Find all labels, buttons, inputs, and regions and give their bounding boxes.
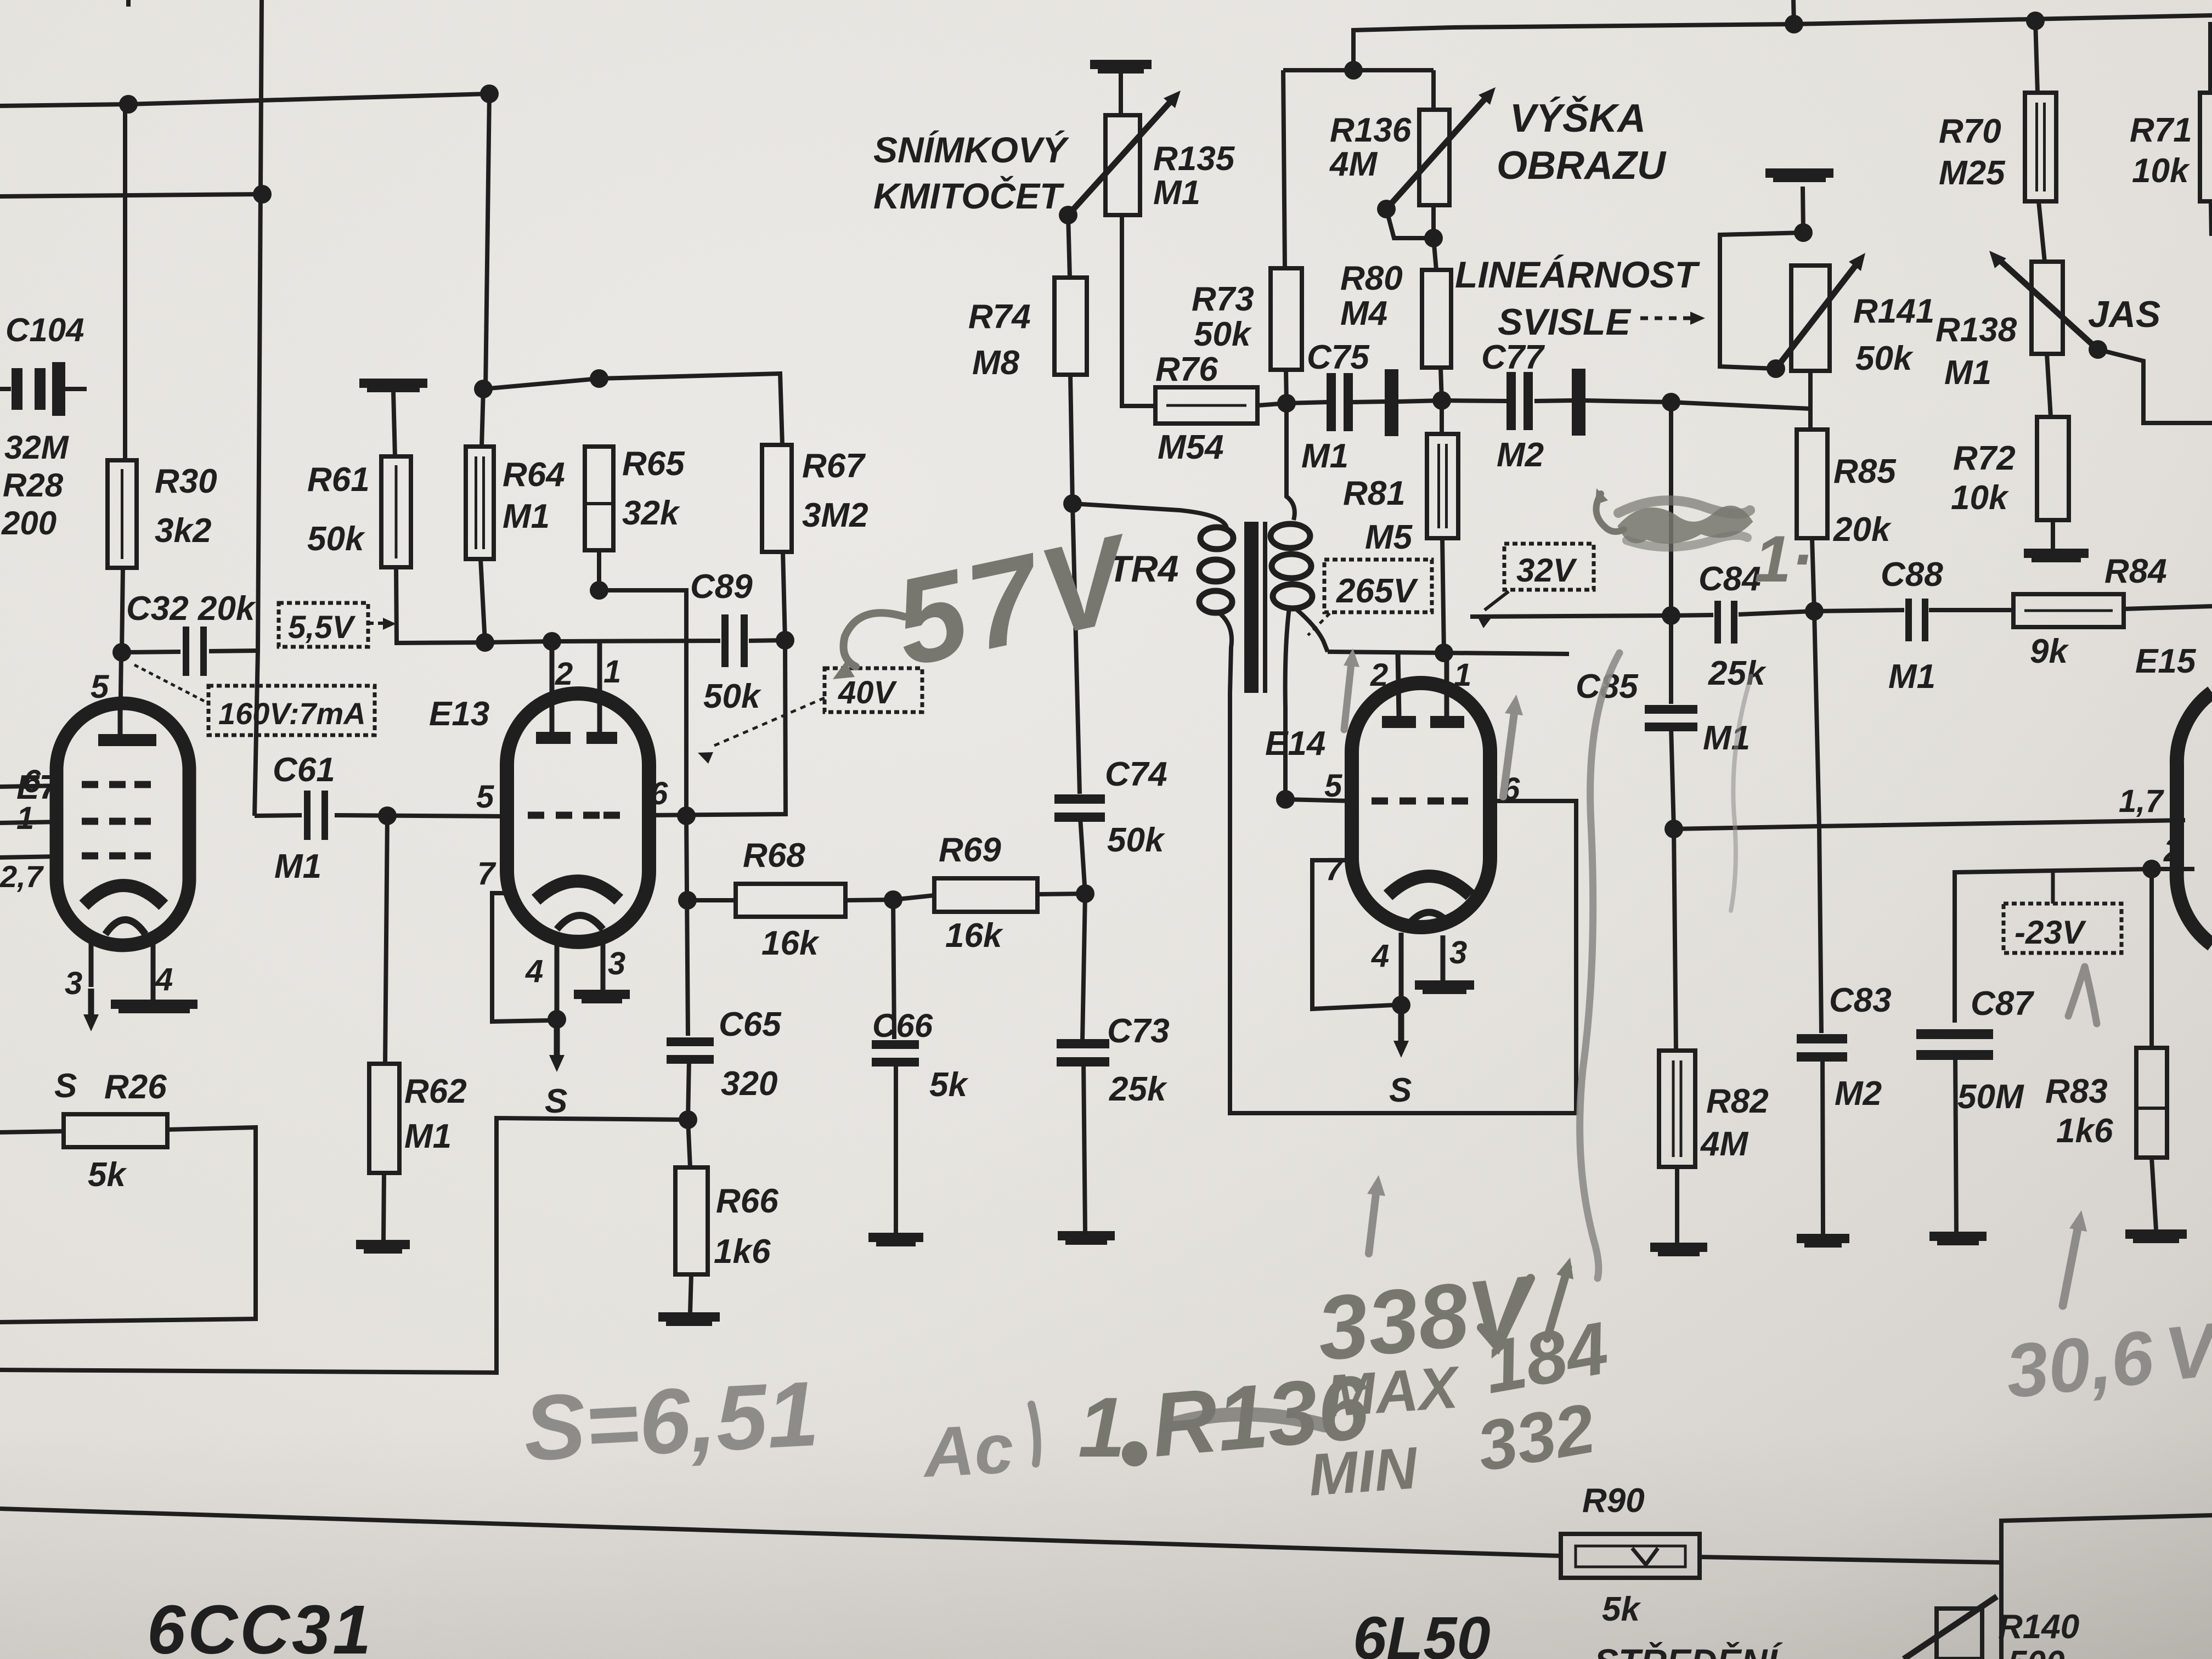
wire R65 bottom [599, 550, 686, 816]
svg-text:6: 6 [650, 776, 668, 811]
svg-text:R62: R62 [404, 1073, 467, 1110]
wire R136 wiper link [1386, 209, 1434, 238]
svg-text:5k: 5k [88, 1156, 127, 1194]
resistor R61 [393, 392, 395, 456]
pencil curl near 32V [1596, 494, 1624, 532]
svg-text:7: 7 [477, 856, 496, 891]
pointer to 160V box [134, 665, 208, 703]
svg-text:JAS: JAS [2088, 294, 2160, 335]
junction top x3710 [2026, 12, 2045, 30]
pencil faint curve near C85 [1731, 676, 1751, 911]
wire E14 pin6 loop [1230, 692, 1576, 1113]
arrow from 5,5V box [368, 622, 387, 625]
transformer TR4 core [1244, 522, 1259, 693]
resistor R74 [1068, 215, 1070, 278]
svg-text:M54: M54 [1158, 428, 1224, 466]
pencil arrow above 30,6V [2063, 1221, 2079, 1306]
junction C65 bottom [679, 1110, 697, 1129]
wire JAS wiper out [2098, 349, 2212, 423]
E13 pin1 lead [597, 641, 602, 732]
svg-text:1: 1 [603, 654, 621, 690]
wire R141 top [1803, 187, 1803, 233]
svg-text:M1: M1 [503, 498, 550, 535]
tube E7 envelope [57, 703, 189, 945]
svg-text:R73: R73 [1192, 280, 1254, 318]
pointer 265V [1308, 613, 1330, 635]
E14 cathode arc [1388, 876, 1470, 895]
svg-text:32M: 32M [4, 429, 70, 466]
svg-text:160V:7mA: 160V:7mA [218, 696, 366, 731]
capacitor C65 [686, 816, 688, 1036]
pencil up arrow above 338V [1369, 1185, 1377, 1254]
wire R73 bottom [1286, 370, 1286, 403]
svg-text:6CC31: 6CC31 [147, 1591, 373, 1659]
resistor R26 [0, 1131, 64, 1132]
junction R138 wiper [2089, 340, 2107, 359]
wire R61 bottom to V2 [396, 567, 485, 643]
svg-text:2: 2 [2163, 833, 2181, 868]
wire R71 bottom [2211, 201, 2211, 236]
E14 pin7 bracket [1312, 860, 1393, 1009]
voltage box 32V [1504, 544, 1594, 590]
junction grid row x1251 [677, 806, 696, 825]
svg-text:C73: C73 [1107, 1012, 1170, 1050]
ground E13 pin3 [574, 990, 630, 999]
wire after R90 [1700, 1557, 2001, 1562]
junction C77row riser [1662, 393, 1680, 411]
E7 heater arc [105, 920, 145, 935]
resistor R66 [688, 1120, 690, 1167]
junction H1-V2 [480, 84, 499, 103]
svg-text:32V: 32V [1516, 552, 1578, 589]
svg-text:R72: R72 [1953, 439, 2016, 477]
junction R141 top [1794, 223, 1813, 242]
svg-text:500: 500 [2008, 1644, 2064, 1659]
pencil long swoosh [1580, 653, 1620, 1278]
resistor R30 [123, 104, 127, 460]
svg-text:3M2: 3M2 [802, 496, 868, 534]
E7 pin3 lead [89, 939, 94, 987]
junction C61-R62 [378, 806, 397, 825]
svg-text:M1: M1 [1153, 174, 1200, 212]
wire y1170 row [485, 641, 720, 642]
svg-text:R71: R71 [2130, 111, 2192, 149]
svg-text:R26: R26 [104, 1068, 167, 1106]
svg-text:C83: C83 [1829, 981, 1892, 1019]
E7 pin4 lead [151, 941, 156, 1000]
capacitor C32 [183, 627, 189, 676]
wire E15 pin2 row [2152, 867, 2194, 871]
svg-text:R66: R66 [716, 1182, 778, 1220]
wire E14 pin5 to junction [1285, 799, 1352, 801]
E14 anode bars [1382, 716, 1416, 728]
pencil up arrow right of 338V [1547, 1267, 1568, 1339]
capacitor C77 [1442, 400, 1507, 401]
resistor R71 partial [2200, 93, 2212, 201]
svg-text:VÝŠKA: VÝŠKA [1510, 96, 1646, 140]
wire row y1120 [1470, 615, 1713, 617]
wire R67 bottom [783, 552, 785, 640]
svg-text:50k: 50k [1107, 821, 1166, 859]
svg-text:40V: 40V [838, 675, 898, 710]
svg-text:50k: 50k [703, 678, 762, 715]
svg-text:R140: R140 [1998, 1608, 2079, 1646]
resistor R135 variable [1119, 74, 1123, 115]
wire stub top edge [126, 0, 131, 7]
wire R70 to R138 [2039, 201, 2045, 262]
svg-text:3: 3 [1449, 935, 1467, 970]
capacitor C61 [304, 791, 311, 840]
E13 pin4 lead [555, 935, 560, 1019]
svg-text:2: 2 [1370, 657, 1388, 693]
capacitor C89 [721, 614, 729, 667]
wire R74 bottom [1070, 375, 1073, 504]
resistor R70 [2035, 21, 2038, 93]
junction C89 right [776, 631, 794, 650]
pencil arrow near C87 [2068, 967, 2085, 1016]
svg-text:5k: 5k [1602, 1590, 1641, 1628]
E13 pin7 bracket [492, 893, 549, 1022]
wire pin2 bracket to C87 [1955, 869, 2152, 1023]
svg-text:6: 6 [23, 764, 41, 799]
svg-text:Ac: Ac [920, 1409, 1015, 1493]
svg-text:1: 1 [1078, 1380, 1125, 1475]
svg-text:1·: 1· [1754, 522, 1813, 596]
svg-text:M1: M1 [1301, 437, 1348, 475]
junction R136 wiper [1377, 200, 1396, 218]
E14 heater arc [1407, 912, 1451, 926]
E7 grid row 6 [82, 781, 98, 788]
svg-text:M8: M8 [972, 344, 1020, 382]
junction R85 bottom [1805, 602, 1824, 620]
svg-text:R84: R84 [2104, 552, 2167, 590]
resistor R62 [385, 816, 387, 1064]
junction V2 bottom [476, 633, 494, 652]
junction H128 riser [1344, 61, 1363, 80]
pencil up arrow left of C85 [1503, 705, 1515, 797]
resistor R69 [893, 895, 934, 900]
ground E14 pin3 [1415, 980, 1474, 990]
wire R73 column [1283, 70, 1285, 268]
junction R74-TR4 [1063, 494, 1082, 513]
stub to -23V box [2051, 871, 2055, 904]
ground R62 [383, 1173, 384, 1240]
junction R136-R80 [1424, 229, 1443, 247]
wire bottom long [0, 1509, 1561, 1556]
svg-text:C65: C65 [719, 1006, 782, 1043]
svg-text:20k: 20k [1833, 511, 1892, 549]
wire R136 bottom [1431, 205, 1436, 238]
svg-text:R70: R70 [1939, 112, 2001, 150]
ground E7 pin4 [111, 1000, 198, 1009]
stage box 6L50 [2001, 1515, 2212, 1659]
svg-text:2: 2 [555, 656, 573, 692]
svg-text:265V: 265V [1336, 572, 1418, 610]
svg-text:E13: E13 [429, 695, 489, 733]
svg-text:C89: C89 [690, 568, 753, 606]
resistor R68 [687, 898, 736, 902]
E7 grid row 2,7 [82, 853, 98, 860]
wire horizontal H2 [0, 194, 262, 196]
junction R80-C75row [1432, 391, 1451, 410]
wire long bottom-left [0, 1118, 688, 1373]
svg-text:4: 4 [155, 962, 173, 997]
ground R83 [2152, 1158, 2156, 1229]
svg-text:3: 3 [608, 946, 625, 981]
svg-text:50k: 50k [1855, 340, 1914, 377]
E14 pin4 lead [1399, 933, 1404, 1005]
wire C89 junction down to E13 pin6 [649, 640, 786, 815]
svg-text:C84: C84 [1699, 560, 1761, 598]
E13 pin3 lead [601, 939, 606, 990]
ground above R135 [1090, 60, 1152, 69]
svg-text:4M: 4M [1329, 145, 1378, 183]
voltage box 5,5V [279, 603, 368, 647]
ground C66 [868, 1233, 923, 1242]
wire TR4 secondary bottom to grid [1285, 608, 1289, 799]
svg-text:50k: 50k [307, 520, 366, 558]
ground R82 [1675, 1167, 1679, 1243]
TR4 primary winding [1073, 504, 1227, 528]
ground C73 [1058, 1231, 1115, 1240]
svg-text:R30: R30 [155, 462, 217, 500]
capacitor C87 [1916, 1029, 1993, 1039]
svg-text:R85: R85 [1833, 453, 1897, 490]
capacitor C75 [1286, 402, 1327, 403]
svg-text:C88: C88 [1881, 556, 1943, 594]
svg-text:C32 20k: C32 20k [126, 590, 257, 628]
svg-text:M1: M1 [274, 848, 321, 885]
svg-text:16k: 16k [761, 924, 820, 962]
svg-text:R135: R135 [1153, 140, 1235, 178]
E14 pin3 lead [1441, 935, 1446, 980]
junction pin4 E14 [1392, 996, 1410, 1014]
E7 cathode arc [84, 885, 163, 905]
wire E7 pin5 [120, 652, 121, 738]
junction E13 pin2 [543, 632, 561, 651]
svg-text:R83: R83 [2045, 1073, 2108, 1110]
svg-text:5: 5 [476, 779, 494, 815]
svg-text:50M: 50M [1957, 1078, 2024, 1116]
junction R69-C74 [1076, 884, 1094, 903]
resistor R85 [1797, 430, 1827, 538]
svg-text:STŘEDĚNÍ: STŘEDĚNÍ [1594, 1641, 1783, 1659]
tube E15 envelope partial [2177, 692, 2212, 945]
S arrow E13 [554, 1027, 560, 1058]
junction V2-H709 [474, 380, 493, 398]
svg-text:M5: M5 [1365, 518, 1413, 556]
svg-text:KMITOČET: KMITOČET [873, 176, 1064, 216]
dashed arrow SVISLE [1640, 317, 1694, 320]
capacitor C88 [1905, 599, 1912, 641]
svg-text:E15: E15 [2135, 642, 2197, 680]
svg-text:30,6: 30,6 [2002, 1314, 2158, 1414]
svg-text:R81: R81 [1343, 475, 1406, 512]
wire riser to top wire [1353, 27, 1452, 70]
svg-text:200: 200 [1, 505, 57, 541]
svg-text:M1: M1 [404, 1118, 452, 1155]
svg-text:1: 1 [16, 800, 34, 836]
dashed pointer 40V [710, 698, 825, 747]
svg-text:C77: C77 [1481, 338, 1545, 376]
pencil up arrow near E14 pin2 [1344, 658, 1352, 730]
ground R72 [2051, 520, 2055, 549]
svg-text:LINEÁRNOST: LINEÁRNOST [1455, 254, 1700, 296]
measurement box 160V:7mA [208, 686, 375, 735]
capacitor C73 [1082, 894, 1085, 1040]
svg-text:M1: M1 [1944, 354, 1991, 392]
svg-text:1k6: 1k6 [714, 1233, 771, 1271]
junction H1-V3 [119, 95, 138, 114]
svg-text:R74: R74 [968, 298, 1031, 336]
capacitor C74 [1073, 504, 1080, 794]
svg-text:16k: 16k [945, 917, 1004, 955]
svg-text:V: V [2161, 1307, 2212, 1397]
svg-text:25k: 25k [1708, 654, 1767, 692]
wire R135 bottom [1122, 215, 1155, 406]
wire R85 bottom [1812, 538, 1814, 611]
svg-text:M1: M1 [1888, 658, 1936, 696]
wire top riser x3269 [1793, 0, 1794, 24]
capacitor C104 [12, 368, 22, 410]
capacitor C85 [1669, 616, 1673, 704]
resistor R141 variable [1791, 266, 1830, 371]
resistor R72 [2047, 354, 2051, 417]
ground C83 [1797, 1234, 1849, 1243]
svg-text:C87: C87 [1971, 985, 2034, 1023]
svg-text:10k: 10k [2132, 152, 2191, 190]
junction top x3270 [1785, 15, 1803, 33]
tube E14 envelope [1352, 683, 1490, 927]
capacitor C83 [1814, 611, 1819, 826]
resistor R136 variable [1431, 70, 1436, 110]
tube E13 envelope [507, 693, 649, 942]
svg-text:5,5V: 5,5V [288, 610, 356, 645]
junction C32-R30-E7pin5 [112, 643, 131, 662]
svg-text:S: S [1389, 1071, 1412, 1109]
voltage box -23V [2004, 904, 2121, 953]
svg-text:M2: M2 [1835, 1075, 1882, 1113]
junction pin4-pin7 [548, 1010, 566, 1029]
resistor R76 [1155, 387, 1257, 424]
svg-text:C75: C75 [1307, 338, 1370, 376]
svg-text:M1: M1 [1703, 719, 1750, 757]
svg-text:S: S [545, 1082, 567, 1120]
voltage box 265V [1324, 560, 1432, 612]
capacitor C66 [893, 900, 894, 1039]
ground R66 [690, 1274, 691, 1312]
svg-text:10k: 10k [1951, 479, 2010, 517]
wire V2 upper [486, 94, 489, 389]
wire R71 top [2208, 22, 2212, 93]
resistor R138 variable [2032, 262, 2063, 354]
pointer 32V [1485, 591, 1509, 610]
wire top long [1452, 15, 2212, 27]
pencil curl arrow 57V [844, 613, 905, 667]
svg-text:50k: 50k [1194, 315, 1252, 353]
E14 pin1 lead [1444, 653, 1449, 716]
junction C85 bottom [1664, 820, 1683, 838]
junction R73-R76-C75 [1277, 394, 1296, 413]
svg-text:C74: C74 [1105, 755, 1167, 793]
svg-text:R65: R65 [622, 445, 685, 483]
E14 grid dashes [1372, 798, 1388, 805]
junction R81-E14 pin1 [1435, 644, 1453, 662]
S arrow E14 [1398, 1013, 1404, 1043]
svg-text:1k6: 1k6 [2056, 1112, 2113, 1150]
resistor R80 [1434, 238, 1436, 270]
svg-text:R69: R69 [939, 831, 1001, 869]
svg-text:R138: R138 [1936, 311, 2017, 349]
svg-text:M2: M2 [1497, 436, 1544, 474]
junction H709-R65 [590, 369, 608, 388]
resistor R84 [2013, 594, 2124, 627]
svg-text:C61: C61 [273, 751, 335, 789]
wire vertical V1 [255, 0, 262, 816]
wire riser C77row to C84row [1669, 402, 1673, 616]
voltage box 40V [825, 668, 922, 712]
wire top H128 [1283, 68, 1434, 72]
svg-text:R28: R28 [3, 467, 64, 504]
resistor R64 [482, 389, 483, 447]
E7 anode bar [98, 734, 156, 746]
E13 heater arc [557, 916, 603, 930]
svg-text:4: 4 [525, 953, 543, 989]
E7 grid row 1 [82, 818, 98, 825]
svg-text:M25: M25 [1939, 154, 2006, 192]
svg-text:R141: R141 [1853, 292, 1934, 330]
wire E13 pin5 [335, 815, 507, 816]
svg-text:R61: R61 [307, 461, 370, 499]
pencil scribble near 32V [1623, 510, 1747, 539]
junction grid TR4 [1276, 790, 1295, 809]
svg-text:R68: R68 [743, 837, 805, 874]
svg-text:5k: 5k [929, 1066, 969, 1104]
resistor R82 [1674, 829, 1676, 1051]
svg-text:S=6,51: S=6,51 [521, 1362, 821, 1480]
svg-text:R136: R136 [1330, 111, 1412, 149]
resistor R140 variable [1937, 1609, 1982, 1659]
capacitor C84 [1714, 601, 1721, 644]
svg-text:-23V: -23V [2015, 914, 2087, 951]
junction R135 wiper [1059, 206, 1077, 224]
svg-text:25k: 25k [1109, 1070, 1168, 1108]
svg-text:SVISLE: SVISLE [1498, 301, 1632, 343]
resistor R81 [1440, 400, 1444, 434]
TR4 secondary winding [1286, 403, 1295, 520]
svg-text:R67: R67 [802, 447, 866, 485]
svg-text:32k: 32k [622, 494, 681, 532]
junction R65 bottom [590, 581, 608, 600]
E13 cathode arc [536, 881, 619, 900]
E14 pin2 lead [1398, 653, 1399, 716]
junction R68-R69 [884, 890, 902, 909]
E13 pin2 lead [550, 641, 555, 732]
wire E14 plate row [1328, 652, 1569, 654]
junction C85 top [1662, 606, 1680, 625]
resistor R65 [585, 447, 613, 550]
resistor R67 [762, 445, 792, 552]
resistor R83 [2149, 869, 2154, 1048]
svg-text:3k2: 3k2 [155, 512, 211, 550]
svg-text:C104: C104 [5, 312, 84, 348]
wire C77 row to R85 [1671, 402, 1810, 409]
svg-text:C66: C66 [872, 1007, 933, 1044]
wire R80 bottom [1441, 368, 1442, 400]
svg-text:M4: M4 [1340, 295, 1387, 332]
ground C87 [1929, 1232, 1987, 1241]
svg-text:1,7: 1,7 [2119, 783, 2164, 819]
